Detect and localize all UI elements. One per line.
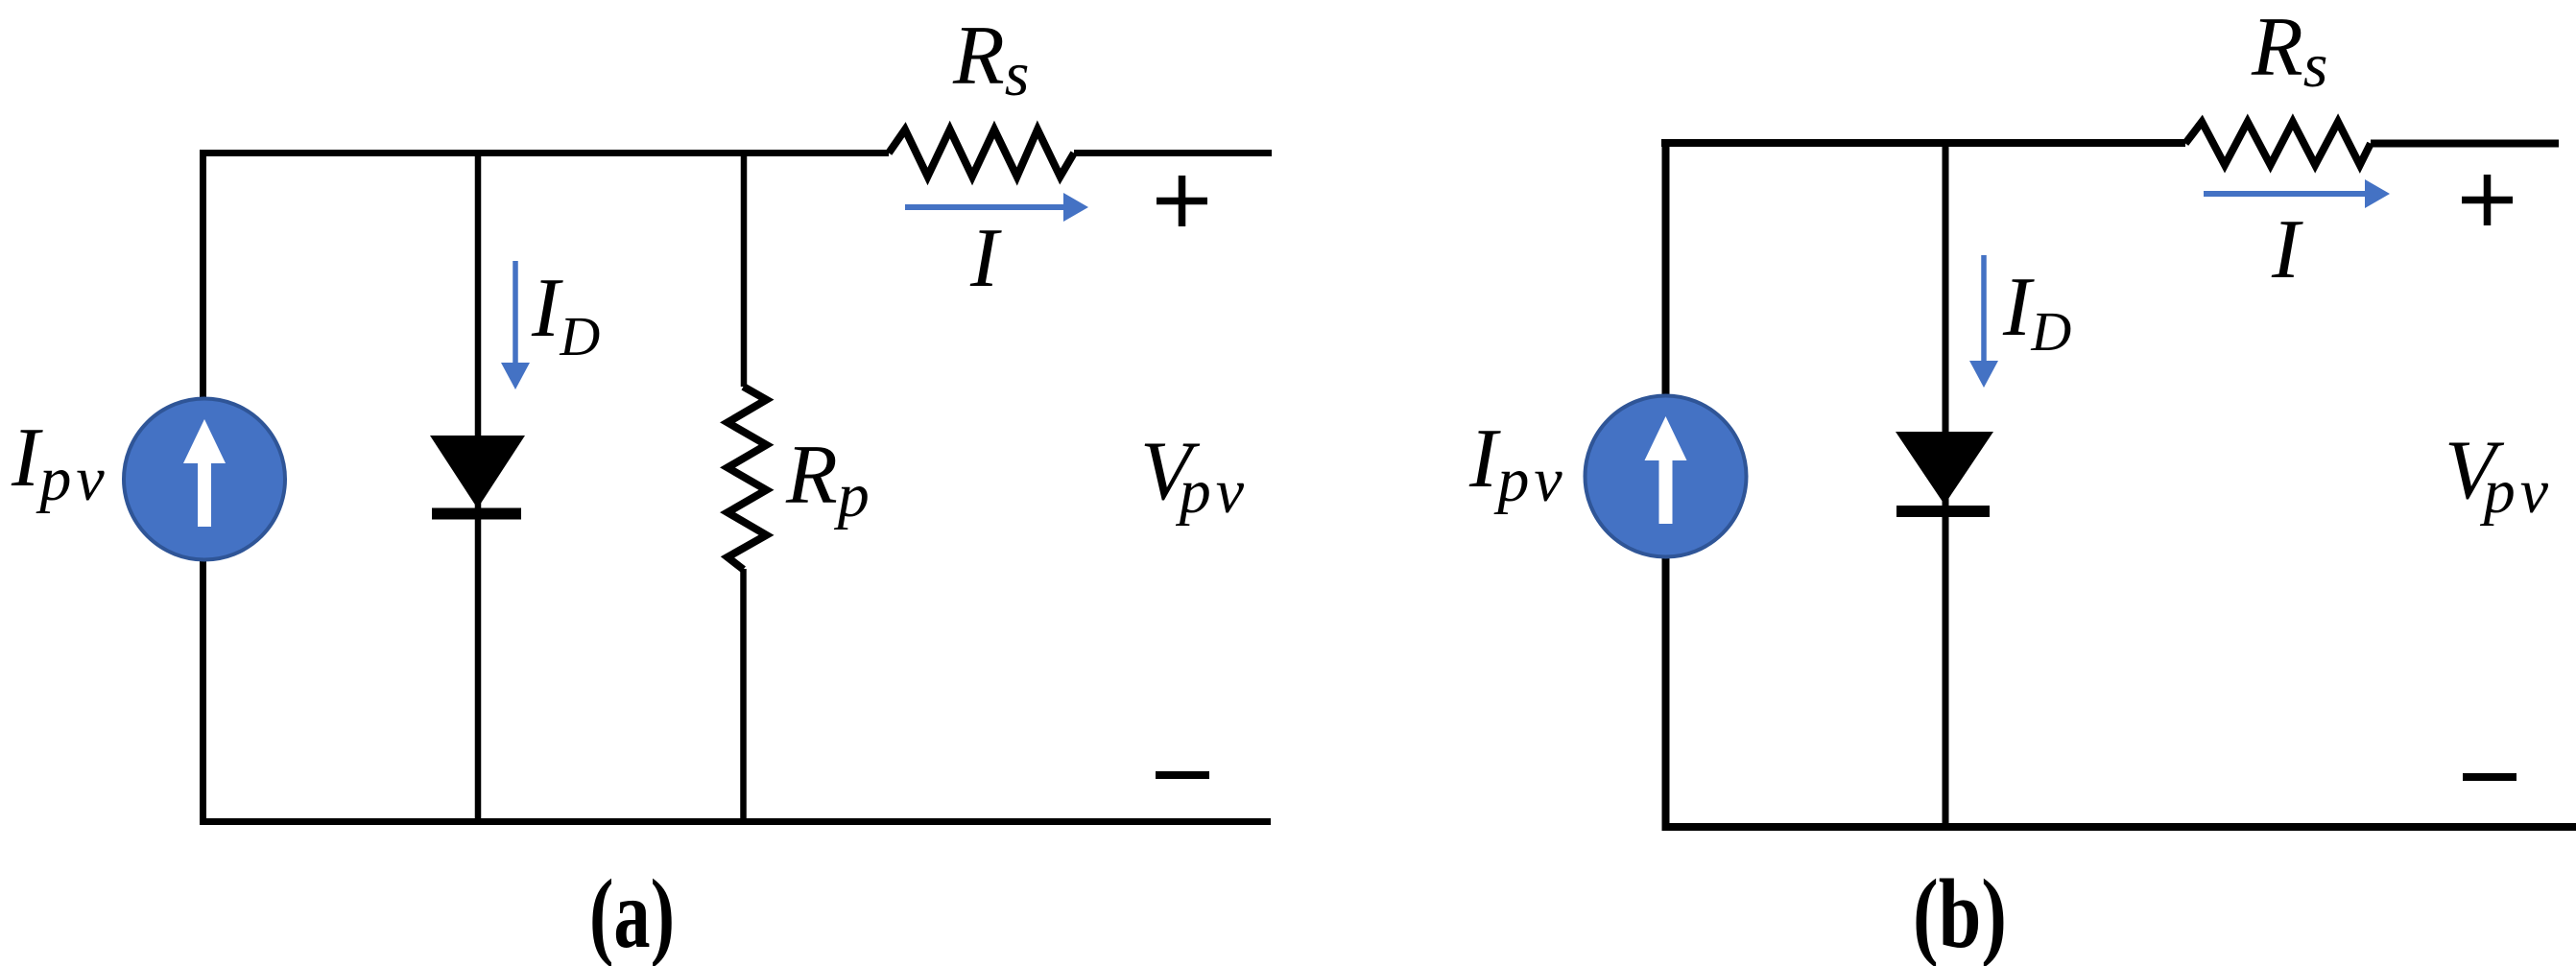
current arrow I (b) [2204, 179, 2390, 208]
current arrow I (a) [905, 193, 1088, 222]
svg-text:Vpv: Vpv [1140, 425, 1249, 527]
plus terminal (a) [1157, 176, 1207, 226]
wire: Rp branch lower vertical (a) [740, 569, 747, 825]
wire: diode branch vertical (a) [475, 150, 482, 825]
minus terminal (a) [1156, 771, 1209, 779]
wire: bottom horizontal (b) [1662, 823, 2576, 831]
wire: diode branch vertical (b) [1943, 139, 1949, 831]
resistor Rs (a) zigzag [889, 130, 1074, 177]
wire: top horizontal left segment (a) [200, 150, 889, 156]
svg-text:ID: ID [531, 262, 600, 367]
svg-text:Vpv: Vpv [2445, 424, 2553, 527]
svg-text:Rp: Rp [785, 429, 870, 530]
svg-text:Rs: Rs [952, 10, 1029, 109]
svg-text:Ipv: Ipv [11, 412, 109, 514]
resistor Rp (a) zigzag [727, 387, 767, 570]
svg-text:Ipv: Ipv [1468, 412, 1567, 515]
svg-text:(a): (a) [589, 860, 675, 966]
diode current arrow ID (a) [501, 261, 530, 389]
wire: top horizontal left segment (b) [1661, 139, 2185, 147]
plus terminal (b) [2462, 175, 2513, 225]
wire: bottom horizontal (a) [200, 818, 1271, 825]
svg-text:Rs: Rs [2251, 1, 2327, 101]
svg-text:I: I [2271, 203, 2303, 296]
svg-text:ID: ID [2002, 261, 2071, 363]
resistor Rs (b) zigzag [2185, 122, 2371, 165]
svg-text:(b): (b) [1913, 860, 2007, 966]
diode current arrow ID (b) [1969, 255, 1998, 388]
wire: top horizontal right segment (a) [1074, 150, 1272, 156]
wire: left vertical (b) [1662, 139, 1670, 831]
minus terminal (b) [2463, 773, 2516, 781]
current source Ipv (b) [1586, 396, 1747, 557]
svg-text:I: I [969, 212, 1002, 305]
diode D (a) [430, 436, 525, 520]
wire: top horizontal right segment (b) [2371, 140, 2559, 148]
wire: Rp branch upper vertical (a) [741, 150, 748, 387]
diode D (b) [1896, 432, 1993, 517]
current source Ipv (a) [124, 399, 285, 560]
wire: left vertical (a) [200, 150, 206, 825]
